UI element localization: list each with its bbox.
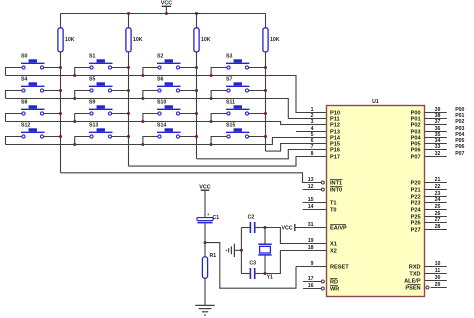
wire resistor to column 3 [196,52,198,68]
junction row 4 hook S14 [141,143,144,146]
resistor R1 [204,243,206,257]
U1 pin 17 circle [321,280,324,283]
wire S14 right terminal to column 3 [180,136,197,138]
wire S12 left terminal to row 4 [6,137,22,145]
wire S2 right terminal to column 3 [180,67,197,69]
wire S3 left terminal to row 1 [211,68,227,76]
svg-text:U1: U1 [372,99,379,105]
svg-text:8: 8 [311,151,314,157]
junction VCC stub [165,12,168,15]
svg-text:P07: P07 [455,151,464,157]
wire S6 left terminal to row 2 [143,91,158,99]
wire column 1 vertical [60,68,62,173]
svg-text:X2: X2 [330,249,337,255]
wire row 2 net to U1 [6,99,327,119]
junction crystal top [264,226,267,229]
junction row 4 hook S15 [210,143,213,146]
svg-text:S9: S9 [89,100,95,106]
junction S12 column 1 [59,135,62,138]
svg-text:S8: S8 [21,100,27,106]
junction row 1 hook S1 [73,74,76,77]
wire pin 14 stub [303,209,327,211]
wire column 3 vertical [196,68,198,159]
svg-text:R1: R1 [210,253,217,259]
wire rail to resistor col1 [60,14,62,28]
svg-text:P24: P24 [411,208,422,214]
wire S3 right terminal to column 4 [249,67,266,69]
svg-text:30: 30 [435,275,441,281]
svg-text:13: 13 [308,177,314,183]
wire RESET route [205,243,296,289]
svg-text:P26: P26 [411,221,421,227]
junction row 1 hook S3 [210,74,213,77]
wire S0 left terminal to row 1 [6,68,22,76]
wire column 4 net to U1 pin 6(P15) [266,144,327,152]
svg-text:P07: P07 [411,155,421,161]
svg-text:29: 29 [435,282,441,288]
svg-text:S10: S10 [157,100,166,106]
wire S1 right terminal to column 2 [112,67,129,69]
svg-text:S5: S5 [89,77,95,83]
wire pin 15 stub [303,202,327,204]
svg-text:S14: S14 [157,123,166,129]
junction S3 column 4 [264,66,267,69]
junction rail col2 [127,12,130,15]
svg-text:S6: S6 [157,77,163,83]
junction S10 column 3 [195,112,198,115]
svg-text:S2: S2 [157,54,163,60]
U1 pin 16 circle [321,287,324,290]
junction crystal bottom [264,272,267,275]
svg-text:7: 7 [311,144,314,150]
U1 pin 12 circle [321,188,324,191]
junction S1 column 2 [127,66,130,69]
svg-text:P02: P02 [411,123,421,129]
wire column 2 net to U1 pin 8(P17) [129,157,327,167]
wire S13 right terminal to column 2 [112,136,129,138]
junction S0 column 1 [59,66,62,69]
svg-text:10K: 10K [65,37,75,43]
resistor 10K (column 1) [58,28,63,52]
junction row 1 hook S2 [141,74,144,77]
wire column 2 vertical [128,68,130,167]
wire X2 to U1 pin 18 [265,251,327,274]
wire S10 right terminal to column 3 [180,113,197,115]
svg-text:C3: C3 [249,261,256,267]
wire column 3 net to U1 pin 7(P16) [197,150,327,159]
junction rail col3 [195,12,198,15]
resistor 10K (column 3) [194,28,199,52]
wire rail to resistor col4 [265,14,267,28]
junction row 3 hook S11 [210,120,213,123]
U1 right pin wires and numbers [425,112,447,114]
wire X1 to U1 pin 19 [265,228,327,244]
wire pin 12 stub [303,189,321,191]
junction row 3 hook S10 [141,120,144,123]
svg-text:S0: S0 [21,54,27,60]
capacitor C1 (electrolytic) [197,218,213,221]
U1 pin 29 circle [426,286,429,289]
svg-text:P02: P02 [455,119,464,125]
svg-text:22: 22 [435,184,441,190]
svg-text:C1: C1 [213,215,220,221]
wire row 1 net to U1 [6,76,327,113]
junction S4 column 1 [59,89,62,92]
svg-text:VCC: VCC [199,184,210,190]
svg-text:Y1: Y1 [267,275,273,281]
wire S11 right terminal to column 4 [249,113,266,115]
wire S15 left terminal to row 4 [211,137,227,145]
wire S13 left terminal to row 4 [75,137,90,145]
junction row 2 hook S5 [73,97,76,100]
svg-text:PSEN: PSEN [405,286,420,292]
wire S15 right terminal to column 4 [249,136,266,138]
wire column 4 vertical [265,68,267,152]
junction row 2 hook S6 [141,97,144,100]
junction S7 column 4 [264,89,267,92]
junction row 4 hook S13 [73,143,76,146]
svg-text:T0: T0 [330,208,337,214]
svg-text:21: 21 [435,177,441,183]
IC U1 body [327,106,425,297]
wire row 3 net to U1 [6,122,327,125]
svg-text:EA/VP: EA/VP [330,226,347,232]
junction S11 column 4 [264,112,267,115]
wire S6 right terminal to column 3 [180,90,197,92]
wire S5 left terminal to row 2 [75,91,90,99]
svg-text:28: 28 [435,224,441,230]
svg-text:10K: 10K [133,37,143,43]
wire resistor to column 2 [128,52,130,68]
junction S13 column 2 [127,135,130,138]
wire S7 left terminal to row 2 [211,91,227,99]
ground (crystal) [233,244,235,257]
svg-text:P23: P23 [411,201,421,207]
wire crystal loop left [240,228,242,274]
svg-text:RESET: RESET [330,265,349,271]
svg-text:P06: P06 [455,144,464,150]
wire resistor to column 1 [60,52,62,68]
svg-text:P17: P17 [330,155,340,161]
wire S7 right terminal to column 4 [249,90,266,92]
wire S12 right terminal to column 1 [44,136,61,138]
svg-text:24: 24 [435,197,441,203]
svg-text:10K: 10K [201,37,211,43]
wire rail to resistor col2 [128,14,130,28]
svg-text:S11: S11 [226,100,235,106]
wire C1 to junction [204,223,206,242]
wire row 4 net to U1 [6,138,327,145]
svg-text:25: 25 [435,204,441,210]
junction S2 column 3 [195,66,198,69]
junction row 2 hook S7 [210,97,213,100]
svg-text:S13: S13 [89,123,98,129]
wire S11 left terminal to row 3 [211,114,227,122]
wire S4 right terminal to column 1 [44,90,61,92]
junction S14 column 3 [195,135,198,138]
junction crystal ground [240,249,243,252]
svg-text:37: 37 [435,119,441,125]
wire rail to resistor col3 [196,14,198,28]
ground (below R1) [195,304,214,306]
svg-text:T1: T1 [330,201,337,207]
wire U1 pin 4 stub [296,131,327,133]
svg-text:S4: S4 [21,77,27,83]
svg-text:VCC: VCC [161,1,172,7]
wire resistor to column 4 [265,52,267,68]
crystal Y1 [264,228,266,245]
svg-text:+: + [207,212,210,217]
svg-text:P16: P16 [330,148,340,154]
wire S2 left terminal to row 1 [143,68,158,76]
svg-text:S3: S3 [226,54,232,60]
wire S14 left terminal to row 4 [143,137,158,145]
svg-text:S15: S15 [226,123,235,129]
svg-text:X1: X1 [330,242,337,248]
svg-text:TXD: TXD [409,272,420,278]
svg-text:P21: P21 [411,188,421,194]
svg-text:33: 33 [435,144,441,150]
svg-text:P27: P27 [411,228,421,234]
wire S8 left terminal to row 3 [6,114,22,122]
junction S8 column 1 [59,112,62,115]
wire S9 left terminal to row 3 [75,114,90,122]
wire S5 right terminal to column 2 [112,90,129,92]
wire S9 right terminal to column 2 [112,113,129,115]
svg-text:RD: RD [330,280,338,286]
svg-text:RXD: RXD [409,265,421,271]
wire S8 right terminal to column 1 [44,113,61,115]
wire S0 right terminal to column 1 [44,67,61,69]
wire S4 left terminal to row 2 [6,91,22,99]
resistor 10K (column 4) [263,28,268,52]
svg-text:INT0: INT0 [330,188,342,194]
svg-text:S7: S7 [226,77,232,83]
svg-text:INT1: INT1 [330,181,342,187]
svg-text:S1: S1 [89,54,95,60]
svg-text:11: 11 [435,268,441,274]
U1 pin 13 circle [321,181,324,184]
svg-text:C2: C2 [248,215,255,221]
wire S1 left terminal to row 1 [75,68,90,76]
svg-text:S12: S12 [21,123,30,129]
svg-text:3: 3 [311,119,314,125]
svg-text:27: 27 [435,217,441,223]
wire RESET pin 9 [296,266,327,268]
svg-text:P20: P20 [411,181,421,187]
junction S5 column 2 [127,89,130,92]
junction S9 column 2 [127,112,130,115]
junction S6 column 3 [195,89,198,92]
svg-text:P12: P12 [330,123,340,129]
wire S10 left terminal to row 3 [143,114,158,122]
svg-text:WR: WR [330,287,339,293]
svg-text:10K: 10K [270,37,280,43]
junction row 3 hook S9 [73,120,76,123]
svg-text:10: 10 [435,261,441,267]
svg-text:ALE/P: ALE/P [404,279,421,285]
wire pin 17 RD stub [303,281,321,283]
wire column 1 net to U1 pin 13(INT1) [61,173,322,183]
junction S15 column 4 [264,135,267,138]
svg-text:VCC: VCC [282,225,293,231]
svg-text:P06: P06 [411,148,421,154]
junction C1/R1 [204,241,207,244]
resistor 10K (column 2) [126,28,131,52]
wire pin 16 WR stub [303,288,321,290]
svg-text:32: 32 [435,151,441,157]
wire VCC rail [61,13,266,15]
